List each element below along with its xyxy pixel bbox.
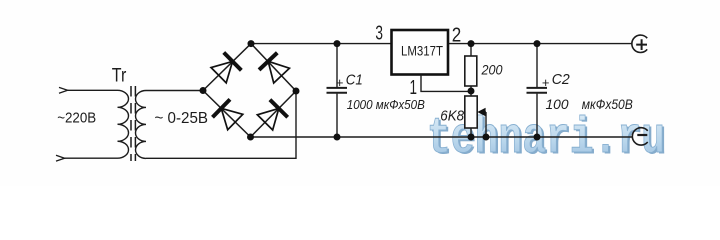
svg-text:~ 0-25В: ~ 0-25В (155, 110, 209, 127)
node bridge left vertex (200, 87, 207, 94)
input arrow bottom (56, 155, 65, 161)
capacitor C1 (327, 44, 348, 137)
node C1 top (334, 40, 341, 47)
transformer Tr primary winding (118, 90, 129, 158)
svg-text:LM317T: LM317T (401, 44, 443, 59)
svg-text:мкФх50В: мкФх50В (582, 96, 633, 112)
resistor R1 200 (465, 44, 477, 91)
svg-text:C2: C2 (552, 71, 571, 88)
svg-text:1000 мкФх50В: 1000 мкФх50В (347, 97, 425, 112)
diode D2 top-right (259, 53, 291, 84)
bridge diamond wires (203, 44, 296, 137)
node bridge bottom vertex (247, 134, 254, 141)
node wiper bottom (483, 134, 490, 141)
node C2 bottom (534, 134, 541, 141)
wire secondary top to bridge (146, 90, 203, 92)
svg-text:2: 2 (452, 24, 462, 46)
potentiometer R2 6K8 (465, 91, 477, 137)
svg-text:100: 100 (546, 96, 569, 112)
label 100 мкФх50В (546, 96, 633, 112)
svg-text:+: + (336, 75, 344, 90)
input arrow top (59, 87, 68, 93)
svg-text:200: 200 (481, 62, 503, 78)
svg-text:~220В: ~220В (57, 110, 96, 127)
svg-text:Tr: Tr (112, 65, 127, 86)
wire top rail left (bridge + to LM317 pin 3) (251, 43, 392, 45)
capacitor C2 (527, 44, 548, 137)
potentiometer wiper arrow (477, 108, 486, 137)
node C1 bottom (334, 134, 341, 141)
wire primary bottom lead (65, 157, 118, 159)
wire pin 1 (adjust) (421, 75, 471, 92)
node bridge top vertex (248, 40, 255, 47)
label + C1 (336, 71, 363, 90)
wire secondary bottom to bridge right vertex (146, 91, 296, 158)
node R2 bottom (468, 134, 475, 141)
node R1/R2 junction (468, 88, 475, 95)
node R1 top (468, 40, 475, 47)
wire bottom rail (minus) (251, 136, 633, 138)
output terminal minus (632, 128, 647, 145)
wire top rail right (LM317 pin 2 to + terminal) (448, 43, 632, 45)
transformer Tr secondary winding (135, 91, 146, 159)
svg-text:6K8: 6K8 (440, 109, 464, 125)
node bridge right vertex (293, 88, 300, 95)
svg-text:3: 3 (375, 23, 383, 45)
label + C2 (542, 71, 570, 90)
watermark tehnari.ru (427, 111, 667, 170)
transformer core dashed lines (131, 86, 135, 161)
node C2 top (534, 40, 541, 47)
diode D1 top-left (210, 53, 242, 85)
op-amp U1 LM317T box (392, 30, 449, 75)
output terminal plus (632, 35, 647, 52)
svg-text:+: + (542, 75, 550, 90)
svg-text:C1: C1 (346, 71, 363, 88)
svg-text:1: 1 (410, 77, 418, 99)
wire primary top lead (68, 89, 118, 91)
diode D4 bottom-right (256, 100, 288, 132)
diode D3 bottom-left (212, 99, 243, 131)
